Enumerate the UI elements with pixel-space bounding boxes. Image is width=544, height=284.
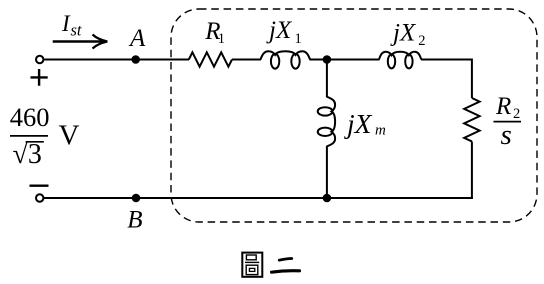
plus sign (31, 69, 48, 86)
svg-text:m: m (375, 123, 386, 139)
wire: jX1 through junction to jX2 (310, 59, 380, 61)
node: top junction at jXm branch (323, 55, 332, 64)
svg-text:B: B (127, 207, 142, 234)
svg-text:460: 460 (10, 102, 50, 132)
wire: jXm to bottom junction (326, 146, 328, 198)
svg-text:1: 1 (295, 31, 302, 47)
svg-text:jX: jX (266, 17, 293, 44)
node B (junction dot) (132, 194, 141, 203)
svg-text:1: 1 (218, 31, 225, 47)
wire: jX2 to top-right corner and down to R2 (421, 60, 472, 99)
svg-text:V: V (59, 119, 80, 151)
wire: R1 to jX1 (232, 59, 261, 61)
inductor jX2 (379, 52, 421, 69)
svg-text:I: I (61, 11, 71, 36)
svg-text:A: A (128, 25, 146, 52)
svg-text:2: 2 (418, 33, 425, 49)
svg-text:jX: jX (344, 108, 373, 139)
svg-text:2: 2 (513, 106, 520, 122)
resistor R2/s (vertical) (464, 98, 479, 141)
caption: character 圖 (242, 253, 262, 277)
svg-text:√3: √3 (13, 139, 42, 170)
node: bottom junction at jXm branch (323, 194, 332, 203)
wire: bottom wire (44, 197, 473, 199)
wire: top wire from + terminal to R1 (44, 59, 190, 61)
wire: R2 down to bottom wire (471, 142, 473, 200)
inductor jXm (vertical) (318, 97, 335, 147)
wire: shunt branch from top junction down to jXm (326, 60, 328, 98)
terminal: + terminal open circle (36, 56, 43, 63)
dashed enclosure box (171, 9, 537, 222)
minus sign (30, 184, 49, 186)
caption: character 二 (272, 259, 300, 273)
svg-text:s: s (501, 119, 512, 151)
arrow for I_st (53, 40, 104, 42)
terminal: - terminal open circle (36, 194, 43, 201)
svg-text:jX: jX (390, 19, 417, 46)
svg-text:R: R (495, 93, 511, 120)
resistor R1 (189, 52, 232, 66)
svg-text:st: st (71, 21, 82, 40)
inductor jX1 (261, 51, 311, 68)
node A (junction dot) (131, 55, 140, 64)
